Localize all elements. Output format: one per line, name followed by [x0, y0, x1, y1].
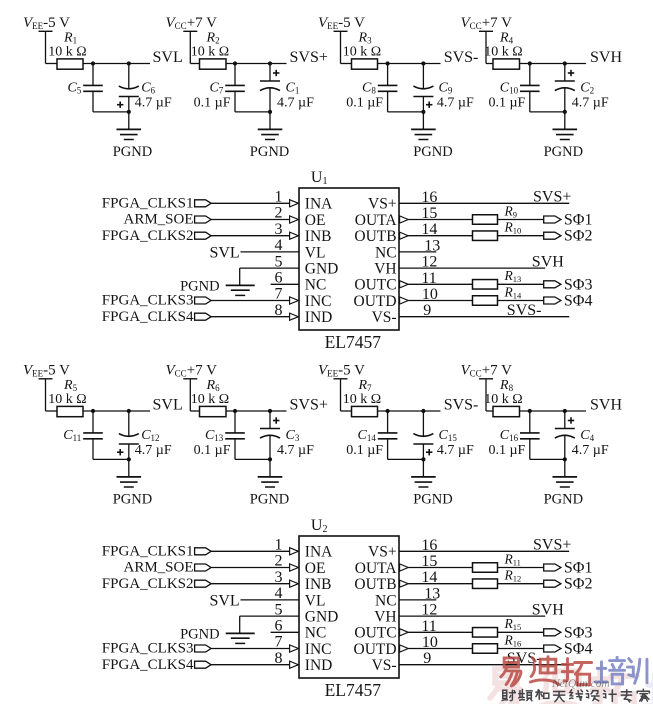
- wire: [240, 616, 299, 633]
- capacitor C15 4.7 uF (polarized): [413, 411, 474, 459]
- resistor R1 10 kOhm: [48, 31, 86, 70]
- svg-text:R9: R9: [504, 203, 518, 219]
- wire: [211, 550, 290, 552]
- wire (pin 13 NC stub): [399, 251, 436, 253]
- svg-text:4: 4: [275, 237, 283, 254]
- svg-text:2: 2: [275, 553, 283, 570]
- pin 1 arrow: [290, 548, 299, 555]
- svg-text:SΦ3: SΦ3: [564, 624, 593, 641]
- svg-text:10 k Ω: 10 k Ω: [343, 45, 381, 60]
- svg-text:C12: C12: [141, 428, 159, 443]
- junction node: [563, 61, 567, 65]
- wire: [211, 219, 290, 221]
- pin 15 arrow: [400, 564, 409, 571]
- wire (pin 6 NC stub): [271, 283, 299, 285]
- svg-text:NC: NC: [305, 625, 327, 642]
- junction node: [127, 409, 131, 413]
- svg-text:1: 1: [275, 537, 283, 554]
- svg-text:C14: C14: [358, 428, 377, 443]
- svg-text:10 k Ω: 10 k Ω: [343, 392, 381, 407]
- svg-text:0.1 µF: 0.1 µF: [346, 95, 383, 110]
- svg-text:9: 9: [423, 650, 431, 667]
- svg-text:5: 5: [275, 253, 283, 270]
- svg-text:IND: IND: [305, 309, 333, 326]
- svg-text:15: 15: [421, 205, 437, 222]
- wire: [498, 648, 544, 650]
- power flag VCC+7 V: [166, 15, 218, 32]
- wire: [211, 235, 290, 237]
- svg-text:SVH: SVH: [532, 601, 564, 618]
- svg-text:INA: INA: [305, 196, 333, 213]
- svg-text:R1: R1: [63, 31, 77, 46]
- svg-text:PGND: PGND: [113, 144, 152, 160]
- wire: [498, 567, 544, 569]
- svg-text:FPGA_CLKS1: FPGA_CLKS1: [102, 196, 194, 212]
- capacitor C7 0.1 &#181;F: [194, 64, 245, 112]
- svg-text:10 k Ω: 10 k Ω: [484, 45, 522, 60]
- svg-text:OE: OE: [305, 212, 326, 229]
- svg-text:C6: C6: [141, 80, 155, 95]
- svg-text:VL: VL: [305, 592, 326, 609]
- resistor R10: [473, 220, 522, 241]
- capacitor C9 4.7 uF (polarized): [413, 64, 474, 112]
- svg-text:12: 12: [421, 602, 437, 619]
- svg-text:C13: C13: [205, 428, 224, 443]
- svg-text:GND: GND: [305, 609, 339, 626]
- wire: [211, 567, 290, 569]
- capacitor C13 0.1 &#181;F: [194, 411, 245, 459]
- svg-text:U2: U2: [311, 517, 328, 535]
- pin 3 arrow: [290, 580, 299, 587]
- svg-text:SΦ2: SΦ2: [564, 576, 593, 593]
- svg-text:1: 1: [275, 189, 283, 206]
- svg-text:FPGA_CLKS2: FPGA_CLKS2: [102, 576, 194, 592]
- junction node: [563, 409, 567, 413]
- svg-text:SVH: SVH: [590, 397, 622, 414]
- svg-text:4.7 µF: 4.7 µF: [572, 96, 609, 111]
- wire: [388, 458, 424, 460]
- wire: [93, 458, 129, 460]
- wire: [388, 111, 424, 113]
- input port FPGA_CLKS3 (pin 7): [102, 641, 211, 657]
- pin 7 arrow: [290, 297, 299, 304]
- svg-text:R8: R8: [499, 378, 514, 393]
- svg-text:SVL: SVL: [153, 397, 183, 414]
- junction node: [127, 110, 131, 114]
- junction node: [563, 457, 567, 461]
- input port ARM_SOE (pin 2): [123, 212, 211, 228]
- wire: [564, 459, 566, 477]
- wire (pin 16 VS+): [399, 202, 569, 204]
- wire (pin 12 VH): [399, 267, 545, 269]
- svg-text:INC: INC: [305, 293, 332, 310]
- svg-text:4.7 µF: 4.7 µF: [277, 443, 314, 458]
- wire: [520, 410, 587, 412]
- power flag VEE-5 V: [318, 362, 365, 379]
- junction node: [421, 110, 425, 114]
- junction node: [268, 61, 272, 65]
- input port FPGA_CLKS1 (pin 1): [102, 196, 211, 212]
- svg-text:4.7 µF: 4.7 µF: [277, 96, 314, 111]
- output port S&#934;3: [544, 276, 593, 293]
- svg-text:PGND: PGND: [180, 278, 219, 294]
- junction node: [268, 110, 272, 114]
- svg-text:OUTB: OUTB: [354, 228, 396, 245]
- junction node: [233, 409, 237, 413]
- output port S&#934;4: [544, 641, 593, 658]
- svg-text:R12: R12: [504, 568, 522, 584]
- junction node: [127, 457, 131, 461]
- resistor R4 10 kOhm: [484, 31, 522, 70]
- junction node: [127, 61, 131, 65]
- ground PGND: [544, 477, 583, 508]
- input port FPGA_CLKS1 (pin 1): [102, 544, 211, 560]
- svg-text:8: 8: [275, 650, 283, 667]
- svg-text:SVL: SVL: [153, 49, 183, 66]
- wire: [46, 31, 58, 63]
- input port FPGA_CLKS2 (pin 3): [102, 576, 211, 592]
- svg-text:2: 2: [275, 205, 283, 222]
- svg-text:10 k Ω: 10 k Ω: [48, 45, 86, 60]
- power flag VCC+7 V: [461, 15, 513, 32]
- svg-text:SΦ4: SΦ4: [564, 641, 593, 658]
- pin 14 arrow: [400, 232, 409, 239]
- svg-text:SVS+: SVS+: [533, 189, 571, 206]
- svg-text:VCC+7 V: VCC+7 V: [166, 15, 218, 31]
- wire: [530, 111, 565, 113]
- svg-text:IND: IND: [305, 657, 333, 674]
- svg-text:VH: VH: [374, 261, 396, 278]
- power flag VCC+7 V: [166, 362, 218, 379]
- svg-text:VH: VH: [374, 609, 396, 626]
- resistor R7 10 kOhm: [343, 378, 381, 416]
- pin 14 arrow: [400, 580, 409, 587]
- pin 10 arrow: [400, 297, 409, 304]
- wire: [498, 283, 544, 285]
- junction node: [268, 457, 272, 461]
- output port S&#934;4: [544, 293, 593, 310]
- svg-text:FPGA_CLKS4: FPGA_CLKS4: [102, 657, 194, 673]
- junction node: [421, 409, 425, 413]
- svg-text:R13: R13: [504, 268, 522, 284]
- wire: [408, 583, 472, 585]
- wire: [408, 648, 472, 650]
- svg-text:FPGA_CLKS4: FPGA_CLKS4: [102, 309, 194, 325]
- ground PGND: [250, 129, 289, 160]
- wire: [83, 63, 150, 65]
- ground PGND: [411, 129, 453, 160]
- svg-text:0.1 µF: 0.1 µF: [194, 95, 231, 110]
- svg-text:C1: C1: [286, 80, 300, 95]
- svg-text:0.1 µF: 0.1 µF: [194, 443, 231, 458]
- svg-text:EL7457: EL7457: [325, 332, 382, 352]
- svg-text:7: 7: [275, 286, 283, 303]
- pin 3 arrow: [290, 232, 299, 239]
- svg-text:OUTD: OUTD: [354, 293, 397, 310]
- wire: [211, 664, 290, 666]
- svg-text:C5: C5: [67, 80, 81, 95]
- junction node: [421, 61, 425, 65]
- svg-text:3: 3: [275, 221, 283, 238]
- svg-text:R15: R15: [504, 616, 522, 632]
- svg-text:10 k Ω: 10 k Ω: [191, 392, 229, 407]
- svg-text:SΦ1: SΦ1: [564, 560, 593, 577]
- svg-text:ARM_SOE: ARM_SOE: [123, 560, 193, 576]
- svg-text:R6: R6: [206, 378, 221, 393]
- resistor R14: [473, 284, 523, 305]
- wire: [211, 316, 290, 318]
- svg-text:C16: C16: [500, 428, 519, 443]
- wire: [498, 631, 544, 633]
- IC U1 EL7457: [299, 169, 399, 352]
- ground PGND: [411, 477, 453, 508]
- svg-text:SΦ3: SΦ3: [564, 276, 593, 293]
- svg-text:4.7 µF: 4.7 µF: [135, 96, 172, 111]
- svg-text:NC: NC: [375, 592, 397, 609]
- svg-text:VEE-5 V: VEE-5 V: [318, 362, 365, 378]
- junction node: [386, 409, 390, 413]
- wire: [241, 599, 300, 601]
- svg-text:C2: C2: [580, 80, 594, 95]
- capacitor C6 4.7 uF (polarized): [117, 64, 172, 112]
- svg-text:OUTC: OUTC: [354, 277, 396, 294]
- junction node: [563, 110, 567, 114]
- svg-text:PGND: PGND: [544, 144, 583, 160]
- svg-text:4.7 µF: 4.7 µF: [572, 443, 609, 458]
- ground PGND: [544, 129, 583, 160]
- svg-text:14: 14: [421, 569, 437, 586]
- wire (pin 12 VH): [399, 615, 545, 617]
- svg-text:PGND: PGND: [250, 492, 289, 508]
- svg-text:C3: C3: [286, 428, 300, 443]
- wire: [378, 410, 441, 412]
- svg-text:3: 3: [275, 569, 283, 586]
- svg-text:NC: NC: [305, 277, 327, 294]
- svg-text:SVL: SVL: [209, 244, 239, 261]
- svg-text:C9: C9: [439, 80, 453, 95]
- svg-text:C15: C15: [439, 428, 458, 443]
- svg-text:4: 4: [275, 585, 283, 602]
- wire: [341, 31, 352, 63]
- resistor R11: [473, 551, 521, 572]
- svg-text:OUTD: OUTD: [354, 641, 397, 658]
- wire: [408, 283, 472, 285]
- svg-text:10 k Ω: 10 k Ω: [484, 392, 522, 407]
- output port S&#934;1: [544, 560, 593, 577]
- svg-text:SΦ1: SΦ1: [564, 212, 593, 229]
- svg-text:0.1 µF: 0.1 µF: [346, 443, 383, 458]
- wire (pin 9 VS-): [399, 664, 569, 666]
- junction node: [268, 409, 272, 413]
- capacitor C2 4.7 uF (polarized): [555, 64, 609, 112]
- svg-text:C8: C8: [362, 80, 376, 95]
- wire: [498, 300, 544, 302]
- svg-text:11: 11: [421, 618, 436, 635]
- svg-text:SVL: SVL: [209, 592, 239, 609]
- svg-text:7: 7: [275, 634, 283, 651]
- svg-text:PGND: PGND: [113, 492, 152, 508]
- svg-text:VCC+7 V: VCC+7 V: [166, 362, 218, 378]
- svg-text:11: 11: [421, 270, 436, 287]
- svg-text:4.7 µF: 4.7 µF: [437, 96, 474, 111]
- pin 7 arrow: [290, 645, 299, 652]
- capacitor C3 4.7 uF (polarized): [260, 411, 314, 459]
- svg-text:10 k Ω: 10 k Ω: [191, 45, 229, 60]
- svg-text:VEE-5 V: VEE-5 V: [23, 362, 70, 378]
- svg-text:FPGA_CLKS3: FPGA_CLKS3: [102, 293, 194, 309]
- svg-text:8: 8: [275, 302, 283, 319]
- IC U2 EL7457: [299, 517, 399, 700]
- svg-text:VS-: VS-: [372, 309, 397, 326]
- svg-text:VCC+7 V: VCC+7 V: [461, 15, 513, 31]
- wire: [235, 111, 270, 113]
- power flag VEE-5 V: [23, 362, 70, 379]
- svg-text:U1: U1: [311, 169, 328, 187]
- wire: [235, 458, 270, 460]
- svg-text:SVH: SVH: [590, 49, 622, 66]
- pin 11 arrow: [400, 281, 409, 288]
- wire (pin 9 VS-): [399, 316, 569, 318]
- output port S&#934;2: [544, 228, 593, 245]
- wire (pin 16 VS+): [399, 550, 569, 552]
- input port FPGA_CLKS3 (pin 7): [102, 293, 211, 309]
- wire: [211, 583, 290, 585]
- svg-text:12: 12: [421, 254, 437, 271]
- pin 8 arrow: [290, 661, 299, 668]
- wire: [211, 648, 290, 650]
- svg-text:13: 13: [424, 237, 440, 254]
- svg-text:C10: C10: [500, 80, 519, 95]
- svg-text:R10: R10: [504, 220, 522, 236]
- svg-text:PGND: PGND: [413, 144, 452, 160]
- ground PGND: [113, 477, 152, 508]
- svg-text:PGND: PGND: [544, 492, 583, 508]
- svg-text:INB: INB: [305, 576, 332, 593]
- junction node: [386, 61, 390, 65]
- svg-text:VL: VL: [305, 244, 326, 261]
- pin 11 arrow: [400, 629, 409, 636]
- svg-text:10: 10: [422, 286, 438, 303]
- capacitor C14 0.1 &#181;F: [346, 411, 397, 459]
- wire: [46, 379, 58, 411]
- capacitor C4 4.7 uF (polarized): [555, 411, 609, 459]
- svg-text:5: 5: [275, 601, 283, 618]
- resistor R6 10 kOhm: [191, 378, 229, 416]
- svg-text:C11: C11: [63, 428, 81, 443]
- svg-text:VEE-5 V: VEE-5 V: [318, 15, 365, 31]
- ground PGND: [250, 477, 289, 508]
- svg-text:4.7 µF: 4.7 µF: [135, 443, 172, 458]
- wire: [422, 112, 424, 129]
- input port FPGA_CLKS4 (pin 8): [102, 657, 211, 673]
- svg-text:16: 16: [421, 189, 437, 206]
- svg-text:SVS+: SVS+: [533, 537, 571, 554]
- wire: [486, 31, 493, 63]
- capacitor C16 0.1 &#181;F: [488, 411, 539, 459]
- svg-text:9: 9: [423, 302, 431, 319]
- wire: [226, 410, 287, 412]
- svg-text:6: 6: [275, 270, 283, 287]
- wire: [226, 63, 287, 65]
- svg-text:ARM_SOE: ARM_SOE: [123, 212, 193, 228]
- svg-text:14: 14: [421, 221, 437, 238]
- svg-text:R5: R5: [63, 378, 78, 393]
- svg-text:SΦ2: SΦ2: [564, 228, 593, 245]
- wire: [93, 111, 129, 113]
- svg-text:R4: R4: [499, 31, 514, 46]
- svg-text:FPGA_CLKS2: FPGA_CLKS2: [102, 228, 194, 244]
- svg-text:INC: INC: [305, 641, 332, 658]
- svg-text:SΦ4: SΦ4: [564, 293, 593, 310]
- svg-text:R16: R16: [504, 632, 522, 648]
- svg-text:C4: C4: [580, 428, 594, 443]
- svg-text:SVS+: SVS+: [290, 397, 328, 414]
- wire: [408, 631, 472, 633]
- svg-text:OE: OE: [305, 560, 326, 577]
- pin 1 arrow: [290, 200, 299, 207]
- svg-text:VS-: VS-: [372, 657, 397, 674]
- svg-text:OUTA: OUTA: [355, 560, 398, 577]
- resistor R8 10 kOhm: [484, 378, 522, 416]
- wire: [240, 268, 299, 285]
- wire: [190, 379, 199, 411]
- junction node: [91, 61, 95, 65]
- output port S&#934;1: [544, 212, 593, 229]
- svg-text:R3: R3: [358, 31, 373, 46]
- wire: [498, 583, 544, 585]
- svg-text:NetQun.com: NetQun.com: [551, 678, 610, 690]
- svg-text:PGND: PGND: [250, 144, 289, 160]
- wire: [486, 379, 493, 411]
- wire: [128, 112, 130, 129]
- pin 15 arrow: [400, 216, 409, 223]
- svg-text:0.1 µF: 0.1 µF: [488, 443, 525, 458]
- wire (pin 6 NC stub): [271, 631, 299, 633]
- wire: [128, 459, 130, 477]
- svg-text:GND: GND: [305, 261, 339, 278]
- capacitor C12 4.7 uF (polarized): [117, 411, 172, 459]
- wire: [269, 112, 271, 129]
- junction node: [421, 457, 425, 461]
- resistor R5 10 kOhm: [48, 378, 86, 416]
- wire: [269, 459, 271, 477]
- power flag VCC+7 V: [461, 362, 513, 379]
- wire: [530, 458, 565, 460]
- capacitor C8 0.1 &#181;F: [346, 64, 397, 112]
- svg-text:PGND: PGND: [180, 626, 219, 642]
- resistor R12: [473, 568, 522, 589]
- capacitor C11: [63, 411, 103, 459]
- wire: [498, 235, 544, 237]
- resistor R2 10 kOhm: [191, 31, 229, 70]
- wire: [378, 63, 441, 65]
- capacitor C10 0.1 &#181;F: [488, 64, 539, 112]
- svg-text:10: 10: [422, 634, 438, 651]
- output port S&#934;2: [544, 576, 593, 593]
- input port FPGA_CLKS4 (pin 8): [102, 309, 211, 325]
- resistor R13: [473, 268, 522, 289]
- svg-text:10 k Ω: 10 k Ω: [48, 392, 86, 407]
- junction node: [233, 61, 237, 65]
- resistor R9: [473, 203, 518, 224]
- svg-text:VCC+7 V: VCC+7 V: [461, 362, 513, 378]
- input port FPGA_CLKS2 (pin 3): [102, 228, 211, 244]
- svg-text:R11: R11: [504, 551, 521, 567]
- wire: [422, 459, 424, 477]
- svg-text:SVS-: SVS-: [507, 302, 542, 319]
- svg-text:R14: R14: [504, 284, 523, 300]
- svg-text:6: 6: [275, 618, 283, 635]
